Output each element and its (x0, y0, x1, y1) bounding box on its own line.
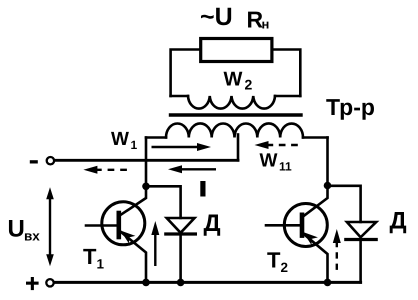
svg-text:1: 1 (131, 138, 138, 152)
svg-text:W: W (111, 129, 129, 150)
transistor T2 base lead (266, 224, 300, 227)
wire right terminal down (326, 138, 329, 186)
wire diode D2 down (359, 240, 362, 283)
wire node A to diode D1 (146, 186, 181, 218)
winding W1-W11 primary (166, 123, 303, 137)
transistor T1 emitter arrowhead (121, 231, 136, 244)
svg-text:Т: Т (267, 248, 281, 273)
winding W1 primary left stub (146, 136, 166, 139)
wire diode D1 down (179, 234, 182, 282)
junction node A (142, 183, 150, 191)
junction T2 emitter bottom (324, 279, 332, 287)
junction node B (324, 182, 332, 190)
svg-text:W: W (224, 69, 243, 91)
junction T1 emitter bottom (142, 279, 150, 287)
resistor Rn box (201, 39, 272, 62)
diode D1 triangle (167, 218, 195, 233)
terminal minus circle (47, 157, 54, 164)
wire collector T2 (302, 186, 327, 218)
svg-text:Т: Т (83, 244, 97, 269)
diode D1 cathode bar (166, 232, 196, 235)
label plus sign (26, 282, 39, 285)
svg-text:2: 2 (245, 77, 253, 93)
wire W2 left stub (171, 95, 188, 98)
svg-text:Д: Д (390, 208, 407, 235)
wire W1 terminal down (145, 138, 148, 187)
transistor T2 emitter (302, 233, 327, 283)
transistor T2 emitter arrowhead (303, 232, 318, 245)
wire minus bus (55, 159, 238, 162)
wire node B to diode D2 (328, 186, 361, 222)
svg-text:Тр-р: Тр-р (326, 94, 375, 120)
svg-text:Д: Д (204, 210, 221, 237)
transformer core (171, 113, 302, 116)
svg-text:вх: вх (24, 229, 40, 244)
svg-text:н: н (262, 17, 270, 32)
arrow current W11 dashed left (255, 141, 302, 149)
svg-text:W: W (260, 151, 278, 172)
transistor T1 base lead (86, 224, 117, 227)
diode D2 triangle (347, 222, 376, 237)
transistor T1 emitter (120, 231, 146, 282)
diode D2 cathode bar (346, 238, 376, 241)
junction diode D1 bottom (177, 279, 185, 287)
arrow up solid T1 (151, 221, 159, 266)
transistor T2 circle (284, 204, 327, 247)
wire W2 right stub (275, 95, 300, 98)
label I (200, 181, 205, 197)
svg-text:1: 1 (97, 257, 105, 272)
transistor T2 base bar (300, 215, 305, 236)
label minus sign (30, 160, 38, 163)
arrow Uvx double vertical (46, 187, 54, 266)
transistor T1 base bar (117, 213, 122, 237)
terminal plus circle (46, 279, 53, 286)
svg-text:~U: ~U (200, 3, 233, 31)
svg-text:11: 11 (279, 160, 292, 174)
wire collector T1 (120, 186, 146, 216)
arrow current I left (168, 165, 216, 173)
svg-text:2: 2 (281, 260, 289, 275)
wire center tap (237, 135, 240, 161)
arrow up dashed T2 (333, 229, 341, 272)
wire bottom plus rail (54, 281, 361, 284)
transistor T1 circle (102, 202, 145, 245)
arrow dashed left below minus bus (83, 166, 132, 174)
arrow current W1 right (152, 143, 212, 151)
wire primary right stub (303, 136, 328, 139)
wire top loop right (272, 50, 300, 97)
winding W2 (188, 96, 275, 109)
svg-text:U: U (8, 216, 25, 243)
wire top loop left (171, 50, 201, 97)
